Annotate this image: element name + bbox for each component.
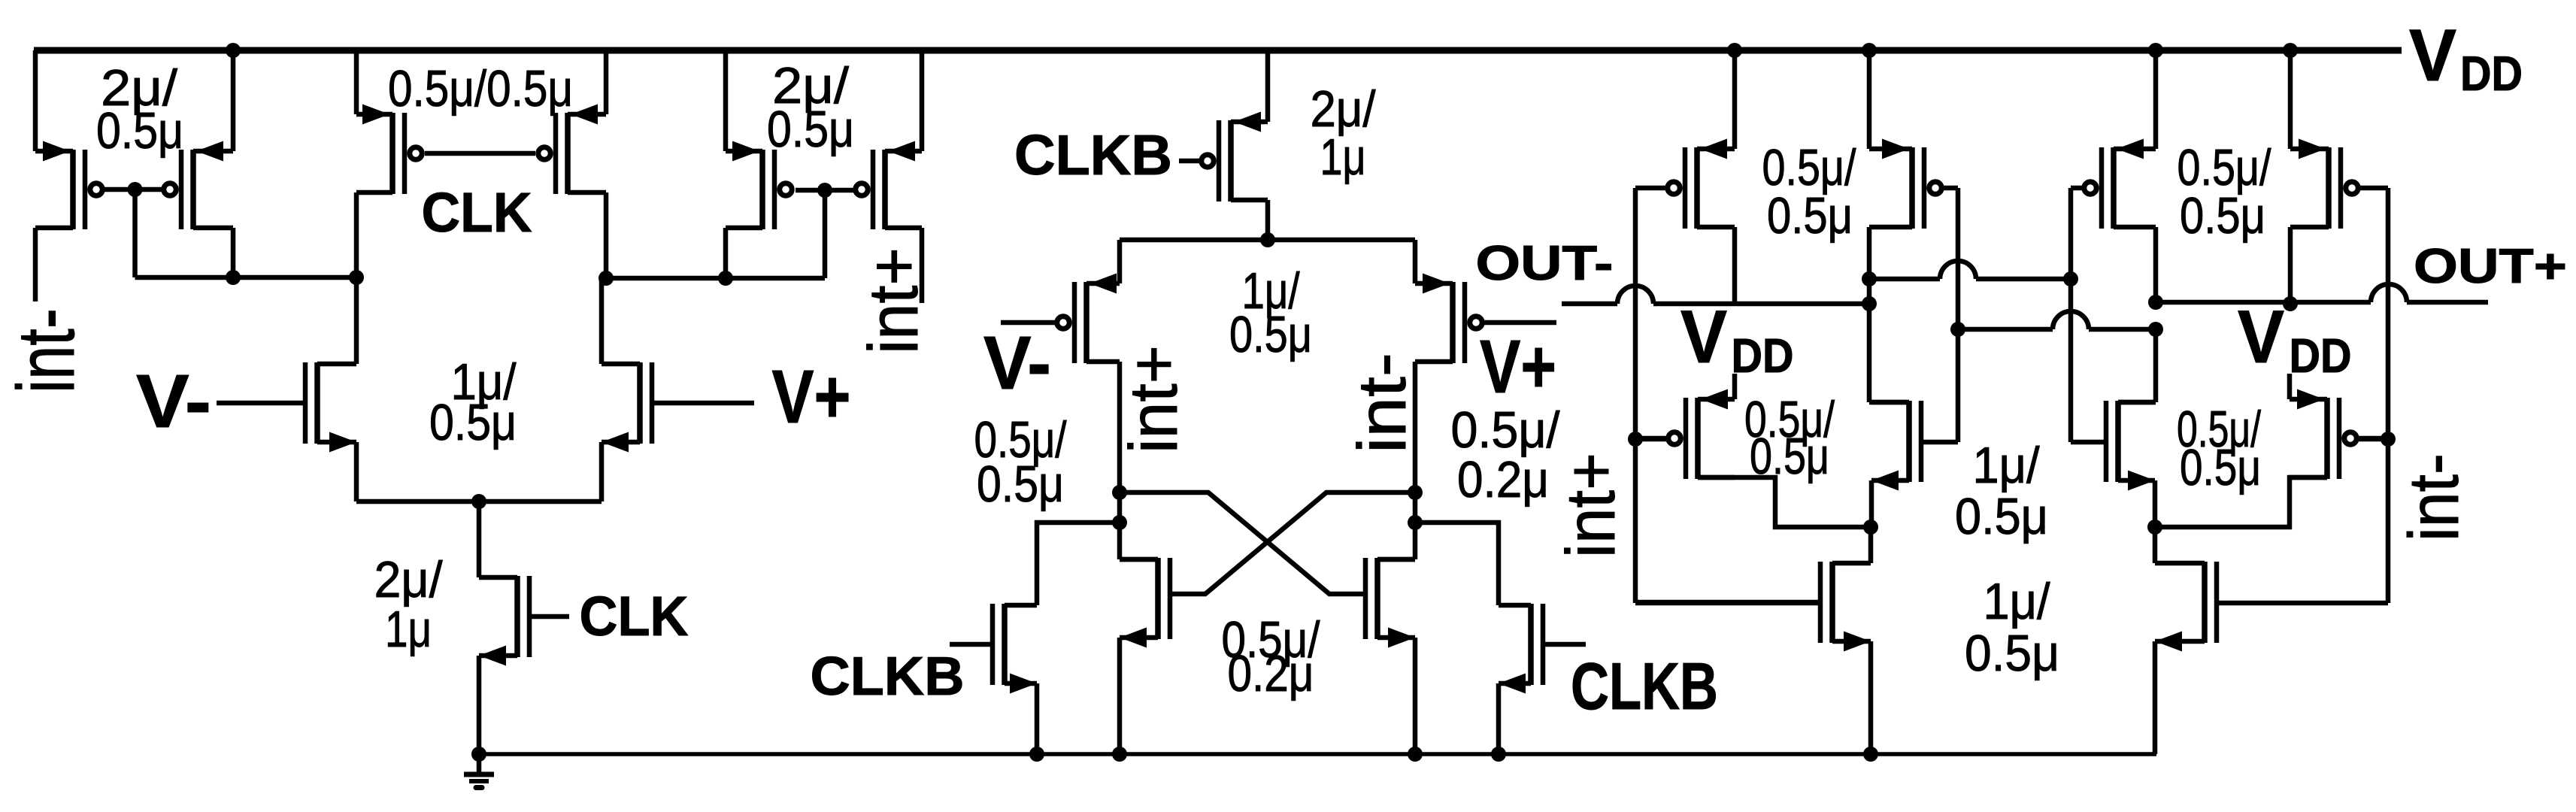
svg-text:2μ/: 2μ/ xyxy=(374,551,443,608)
svg-text:CLK: CLK xyxy=(580,585,689,647)
svg-text:DD: DD xyxy=(2290,329,2352,383)
svg-text:V-: V- xyxy=(136,359,211,444)
svg-text:0.5μ: 0.5μ xyxy=(2180,439,2261,496)
svg-text:0.2μ: 0.2μ xyxy=(1457,451,1549,508)
svg-text:CLKB: CLKB xyxy=(1571,649,1718,723)
svg-text:0.5μ/: 0.5μ/ xyxy=(1451,401,1560,459)
svg-text:int-: int- xyxy=(0,308,91,393)
svg-text:DD: DD xyxy=(1732,329,1794,383)
svg-text:1μ: 1μ xyxy=(385,601,432,658)
svg-text:0.5μ: 0.5μ xyxy=(1767,187,1853,244)
svg-text:0.5μ: 0.5μ xyxy=(96,102,183,159)
svg-text:0.5μ: 0.5μ xyxy=(1955,488,2048,545)
svg-text:CLKB: CLKB xyxy=(811,647,965,707)
svg-text:V: V xyxy=(2238,295,2284,378)
svg-text:V: V xyxy=(1680,295,1727,378)
svg-text:V: V xyxy=(2409,14,2456,96)
svg-text:OUT+: OUT+ xyxy=(2414,238,2567,293)
svg-text:0.2μ: 0.2μ xyxy=(1228,645,1314,702)
svg-text:0.5μ: 0.5μ xyxy=(2180,187,2265,244)
svg-text:V-: V- xyxy=(983,321,1051,405)
svg-text:CLKB: CLKB xyxy=(1014,123,1172,186)
svg-text:1μ/: 1μ/ xyxy=(1973,437,2040,494)
svg-text:0.5μ/0.5μ: 0.5μ/0.5μ xyxy=(388,60,573,117)
svg-text:0.5μ: 0.5μ xyxy=(767,101,854,158)
svg-text:OUT-: OUT- xyxy=(1476,235,1614,290)
svg-text:1μ/: 1μ/ xyxy=(1984,573,2050,630)
svg-text:1μ: 1μ xyxy=(1320,129,1366,186)
svg-text:0.5μ: 0.5μ xyxy=(429,394,517,451)
svg-text:0.5μ: 0.5μ xyxy=(1965,625,2059,682)
svg-text:0.5μ: 0.5μ xyxy=(1750,428,1829,485)
svg-text:int-: int- xyxy=(2394,453,2473,541)
svg-text:int+: int+ xyxy=(1117,345,1192,453)
svg-text:int+: int+ xyxy=(854,247,932,354)
svg-text:0.5μ: 0.5μ xyxy=(1229,306,1312,363)
svg-text:int+: int+ xyxy=(1553,453,1629,558)
svg-text:DD: DD xyxy=(2460,46,2523,101)
svg-text:V+: V+ xyxy=(772,355,851,439)
svg-text:V+: V+ xyxy=(1480,325,1556,409)
svg-text:0.5μ: 0.5μ xyxy=(977,456,1064,513)
svg-text:CLK: CLK xyxy=(422,181,532,244)
svg-text:int-: int- xyxy=(1345,353,1420,453)
